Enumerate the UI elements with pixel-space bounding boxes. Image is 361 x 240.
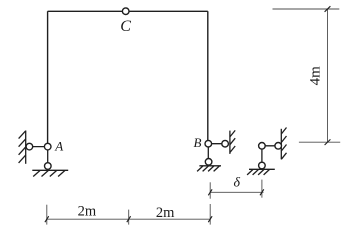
svg-text:C: C bbox=[120, 18, 131, 35]
svg-text:B: B bbox=[194, 135, 202, 150]
svg-text:2m: 2m bbox=[78, 204, 97, 220]
svg-text:4m: 4m bbox=[307, 66, 323, 86]
svg-text:δ: δ bbox=[234, 175, 241, 190]
svg-text:A: A bbox=[54, 138, 63, 153]
svg-text:2m: 2m bbox=[156, 205, 175, 221]
